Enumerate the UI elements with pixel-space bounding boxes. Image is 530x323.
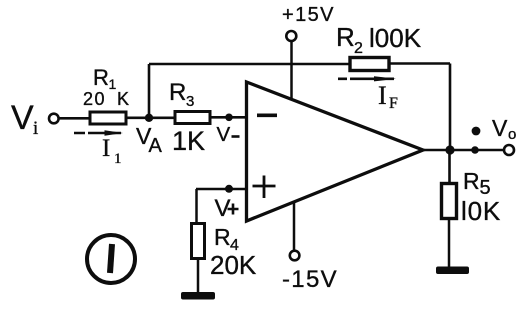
label IF [378, 81, 398, 112]
resistor R4 [192, 224, 205, 259]
wire R3 to inverting input [210, 116, 246, 119]
ground under R4 [181, 292, 215, 300]
label R3 [169, 79, 194, 110]
svg-text:R: R [336, 22, 355, 52]
svg-text:1: 1 [114, 151, 122, 167]
label -15V [282, 266, 338, 293]
label Vo [492, 115, 516, 143]
svg-text:1K: 1K [172, 126, 205, 156]
svg-text:R: R [93, 65, 109, 90]
node VA junction dot [145, 114, 153, 122]
svg-text:A: A [149, 135, 163, 157]
svg-text:I: I [378, 81, 387, 110]
node +15V terminal [286, 31, 296, 41]
label +15V [282, 4, 335, 26]
node Vi input terminal [49, 114, 59, 124]
node output junction dot [445, 145, 454, 154]
svg-text:l0K: l0K [461, 196, 501, 226]
ground under R5 [436, 267, 469, 275]
label V- [217, 123, 240, 146]
svg-text:V: V [217, 123, 231, 146]
node -15V terminal [290, 251, 300, 261]
node dot on output wire [471, 146, 479, 154]
wire op-amp output [423, 149, 450, 152]
svg-text:20: 20 [83, 89, 106, 109]
svg-text:+15V: +15V [282, 4, 335, 26]
R3 value 1K [172, 126, 205, 156]
wire R4 to ground [197, 259, 200, 293]
wire VA up to feedback [148, 64, 151, 118]
node V+ junction dot [225, 185, 233, 193]
svg-text:R: R [214, 224, 231, 250]
svg-text:V: V [492, 115, 508, 141]
R2 value 100K [369, 23, 422, 53]
svg-text:2: 2 [354, 40, 363, 57]
label R2 [336, 22, 363, 57]
svg-text:20K: 20K [210, 250, 257, 280]
wire Vi to R1 [59, 117, 89, 120]
wire -15V from op-amp [293, 203, 296, 251]
node Vo terminal [504, 145, 514, 155]
svg-text:I: I [102, 135, 110, 162]
op-amp U1 triangle [247, 82, 424, 221]
op-amp plus sign [253, 176, 276, 199]
wire feedback top right segment [389, 62, 450, 65]
R4 value 20K [210, 250, 257, 280]
svg-text:F: F [389, 95, 398, 112]
R1 value 20K [83, 89, 129, 109]
label R4 [214, 224, 239, 254]
figure number circled 1 [87, 235, 135, 283]
wire output to Vo terminal [450, 149, 504, 152]
resistor R2 [350, 58, 389, 71]
svg-text:V: V [11, 99, 34, 137]
wire V+ down to R4 [195, 189, 198, 224]
resistor R5 [442, 184, 457, 219]
svg-text:-15V: -15V [282, 266, 338, 293]
wire output node down to R5 [448, 150, 451, 184]
wire R1 to R3 [126, 117, 174, 120]
current arrow I1 [74, 130, 123, 135]
wire R5 to ground [448, 219, 451, 267]
svg-text:K: K [117, 89, 129, 109]
resistor R1 [90, 112, 126, 124]
current arrow IF [338, 76, 396, 81]
svg-text:l00K: l00K [369, 23, 422, 53]
wire +15V to op-amp [290, 41, 293, 100]
label R1 [93, 65, 117, 92]
svg-text:1: 1 [109, 76, 117, 92]
label I1 [102, 135, 122, 167]
label VA [136, 123, 163, 157]
label V+ [215, 195, 239, 222]
label Vi [11, 99, 38, 139]
R5 value 10K [461, 196, 501, 226]
svg-text:R: R [169, 79, 186, 106]
svg-text:o: o [508, 126, 516, 143]
op-amp minus sign [257, 114, 277, 118]
label R5 [463, 168, 491, 199]
wire feedback top left segment [149, 63, 350, 66]
node V- junction dot [225, 114, 233, 122]
resistor R3 [175, 112, 210, 124]
stray dot above output wire [472, 127, 481, 136]
wire feedback down to output node [449, 64, 452, 151]
svg-text:R: R [463, 168, 480, 194]
wire V+ input horizontal [196, 188, 246, 191]
svg-text:i: i [33, 118, 38, 139]
svg-text:3: 3 [186, 93, 194, 110]
